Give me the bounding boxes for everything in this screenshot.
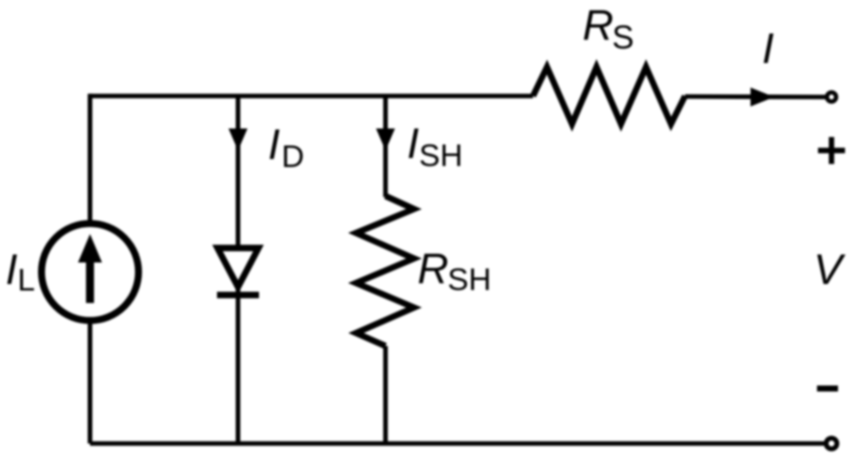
svg-text:I: I (6, 246, 18, 294)
wire left bottom (88, 319, 93, 444)
arrow ID (229, 129, 248, 151)
svg-text:R: R (418, 245, 449, 293)
wire left top (88, 94, 93, 226)
svg-text:I: I (268, 121, 280, 169)
terminal negative (826, 438, 837, 449)
wire diode branch bottom (236, 288, 241, 444)
wire bottom bus (90, 441, 824, 446)
wire RS to terminal (685, 94, 825, 99)
svg-text:L: L (18, 262, 36, 298)
wire shunt branch top (383, 96, 388, 197)
label plus (818, 137, 845, 164)
svg-text:S: S (612, 18, 634, 55)
diode D1 (217, 248, 259, 295)
svg-text:SH: SH (419, 137, 463, 173)
svg-text:D: D (282, 138, 305, 174)
svg-text:SH: SH (448, 261, 492, 297)
svg-text:V: V (814, 246, 847, 294)
wire diode branch top (236, 96, 241, 247)
label minus (817, 386, 838, 392)
resistor RS (533, 67, 685, 124)
svg-text:I: I (407, 120, 419, 168)
wire top bus (90, 94, 533, 99)
resistor RSH (356, 196, 414, 346)
svg-text:R: R (583, 1, 614, 49)
svg-text:I: I (762, 25, 774, 73)
current arrow I (751, 88, 775, 107)
wire shunt branch bottom (383, 346, 388, 444)
current source IL (42, 224, 139, 321)
source arrow (86, 260, 94, 303)
terminal positive (827, 92, 836, 101)
arrow ISH (376, 129, 395, 151)
